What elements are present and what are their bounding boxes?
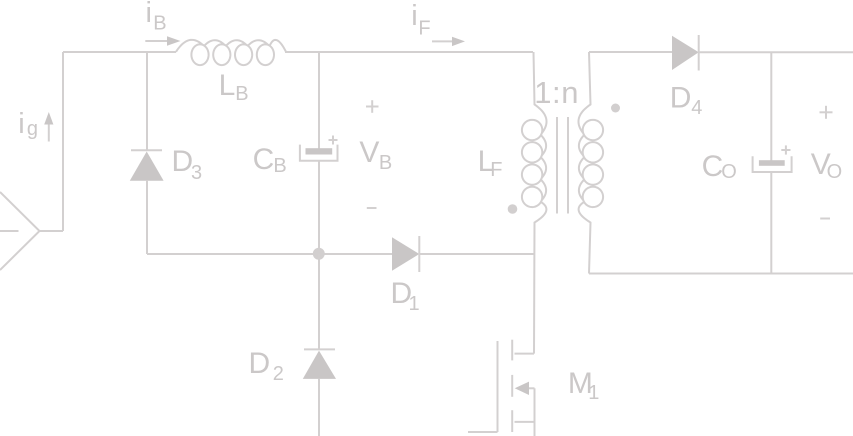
capacitor C_B bottom wire to junction — [318, 161, 320, 254]
wire: top rail from left corner to inductor LB — [63, 51, 176, 53]
diode D1 (pointing right) — [392, 237, 419, 270]
arrow i_F (rightward) — [432, 40, 454, 42]
capacitor C_O bottom wire — [770, 172, 772, 274]
svg-text:B: B — [273, 155, 286, 177]
node: junction of D3/D1/D2/C_B — [313, 248, 325, 260]
svg-text:1: 1 — [588, 382, 599, 404]
transformer secondary winding (with leads, top rail to bottom rail) — [578, 52, 603, 274]
polarity dot (primary, bottom-left) — [508, 204, 518, 214]
MOSFET M1 gate bar — [497, 341, 499, 432]
capacitor C_B top wire — [318, 52, 320, 150]
svg-text:C: C — [702, 150, 724, 183]
plus sign of C_O — [781, 149, 790, 151]
svg-text:1:n: 1:n — [534, 75, 579, 110]
capacitor C_O (polarized) — [759, 160, 785, 166]
wire: D2 anode to bottom edge — [318, 379, 320, 436]
plus sign of V_B — [366, 106, 379, 108]
diode D2 (pointing up) — [304, 348, 335, 350]
diode D4 (pointing right) — [672, 36, 699, 70]
plus sign of C_B — [329, 139, 338, 141]
wire: bottom rail left (D3 corner to D1 anode) — [147, 253, 392, 255]
transformer primary winding LF (with leads, top rail corner to MOSFET drain) — [522, 52, 547, 354]
svg-text:1: 1 — [409, 293, 420, 315]
MOSFET M1 drain stub — [515, 353, 535, 355]
polarity dot (secondary, top-right) — [611, 104, 620, 113]
inductor LB — [176, 40, 286, 65]
transformer core — [556, 117, 558, 214]
diode D2 cathode wire from junction — [318, 254, 320, 349]
source arrow chevron (input source, cropped) — [0, 192, 40, 270]
wire: D3 to bottom rail corner — [146, 181, 148, 254]
svg-text:i: i — [411, 0, 417, 32]
arrow i_g (upward) — [48, 119, 50, 142]
svg-text:D: D — [172, 145, 194, 178]
svg-text:2: 2 — [273, 363, 284, 385]
wire: bottom rail right (secondary bottom to right edge) — [589, 273, 853, 275]
wire: chevron apex to left rail — [40, 230, 64, 232]
svg-text:B: B — [153, 13, 166, 35]
diode D3 anode wire from top rail — [146, 52, 148, 150]
diode D3 (pointing up) — [131, 149, 162, 151]
svg-text:B: B — [235, 83, 248, 105]
wire: top rail from inductor to transformer primary — [285, 51, 533, 53]
wire: input source stub (cropped at left edge) — [0, 230, 19, 232]
minus sign of V_B — [367, 207, 377, 209]
svg-text:O: O — [721, 161, 737, 183]
MOSFET M1 body arrow — [524, 387, 535, 389]
svg-text:B: B — [379, 152, 392, 174]
capacitor C_B (polarized) — [306, 148, 333, 154]
svg-text:3: 3 — [191, 162, 202, 184]
wire: left rail vertical — [62, 52, 64, 231]
svg-text:F: F — [490, 159, 502, 181]
svg-text:D: D — [670, 82, 692, 115]
MOSFET M1 source wire to bottom edge — [534, 388, 536, 436]
svg-text:D: D — [249, 347, 271, 380]
plus sign of V_O — [820, 111, 833, 113]
svg-text:L: L — [219, 69, 236, 102]
wire: secondary top to D4 anode — [589, 51, 672, 53]
MOSFET M1 gate lead — [468, 431, 498, 433]
svg-text:C: C — [253, 143, 275, 176]
wire: D4 cathode to right edge — [699, 51, 853, 53]
svg-text:g: g — [27, 118, 38, 140]
minus sign of V_O — [820, 218, 830, 220]
svg-text:i: i — [146, 0, 152, 29]
svg-text:i: i — [18, 108, 24, 140]
svg-text:V: V — [359, 136, 379, 169]
wire: D1 cathode to transformer primary bottom — [419, 253, 534, 255]
MOSFET M1 channel contacts — [511, 340, 513, 361]
capacitor C_O top wire — [770, 52, 772, 162]
arrow i_B (rightward) — [145, 40, 169, 42]
svg-text:F: F — [418, 18, 430, 40]
MOSFET M1 source stub — [515, 421, 535, 423]
svg-text:4: 4 — [691, 97, 702, 119]
svg-text:O: O — [827, 161, 843, 183]
